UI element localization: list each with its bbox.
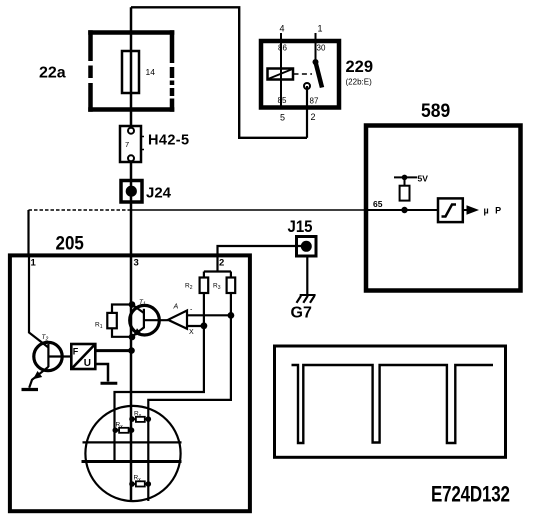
svg-text:J15: J15 (288, 218, 313, 236)
svg-text:1: 1 (318, 24, 323, 34)
svg-text:A: A (173, 304, 179, 311)
svg-text:14: 14 (146, 67, 156, 77)
svg-text:1: 1 (31, 258, 37, 269)
svg-text:205: 205 (56, 231, 84, 253)
svg-text:22a: 22a (39, 64, 66, 81)
svg-text:229: 229 (346, 58, 374, 76)
svg-text:2: 2 (311, 112, 316, 122)
svg-text:87: 87 (310, 97, 319, 106)
svg-text:X: X (189, 329, 194, 336)
svg-text:F: F (73, 346, 79, 356)
svg-text:2: 2 (219, 258, 224, 269)
svg-text:G7: G7 (291, 304, 312, 321)
svg-text:3: 3 (134, 258, 139, 269)
svg-text:J24: J24 (146, 185, 172, 202)
svg-text:7: 7 (125, 140, 129, 149)
svg-text:85: 85 (278, 96, 287, 105)
svg-text:H42-5: H42-5 (148, 132, 190, 148)
svg-text:589: 589 (421, 99, 450, 121)
svg-text:5: 5 (280, 113, 285, 123)
svg-text:µ P: µ P (484, 206, 504, 216)
svg-text:86: 86 (278, 44, 287, 53)
svg-text:(22b:E): (22b:E) (346, 78, 373, 87)
svg-text:30: 30 (317, 44, 326, 53)
svg-text:U: U (84, 358, 91, 369)
svg-text:5V: 5V (418, 174, 429, 184)
svg-text:4: 4 (280, 24, 285, 34)
svg-text:65: 65 (373, 199, 383, 209)
svg-text:E724D132: E724D132 (431, 482, 510, 507)
